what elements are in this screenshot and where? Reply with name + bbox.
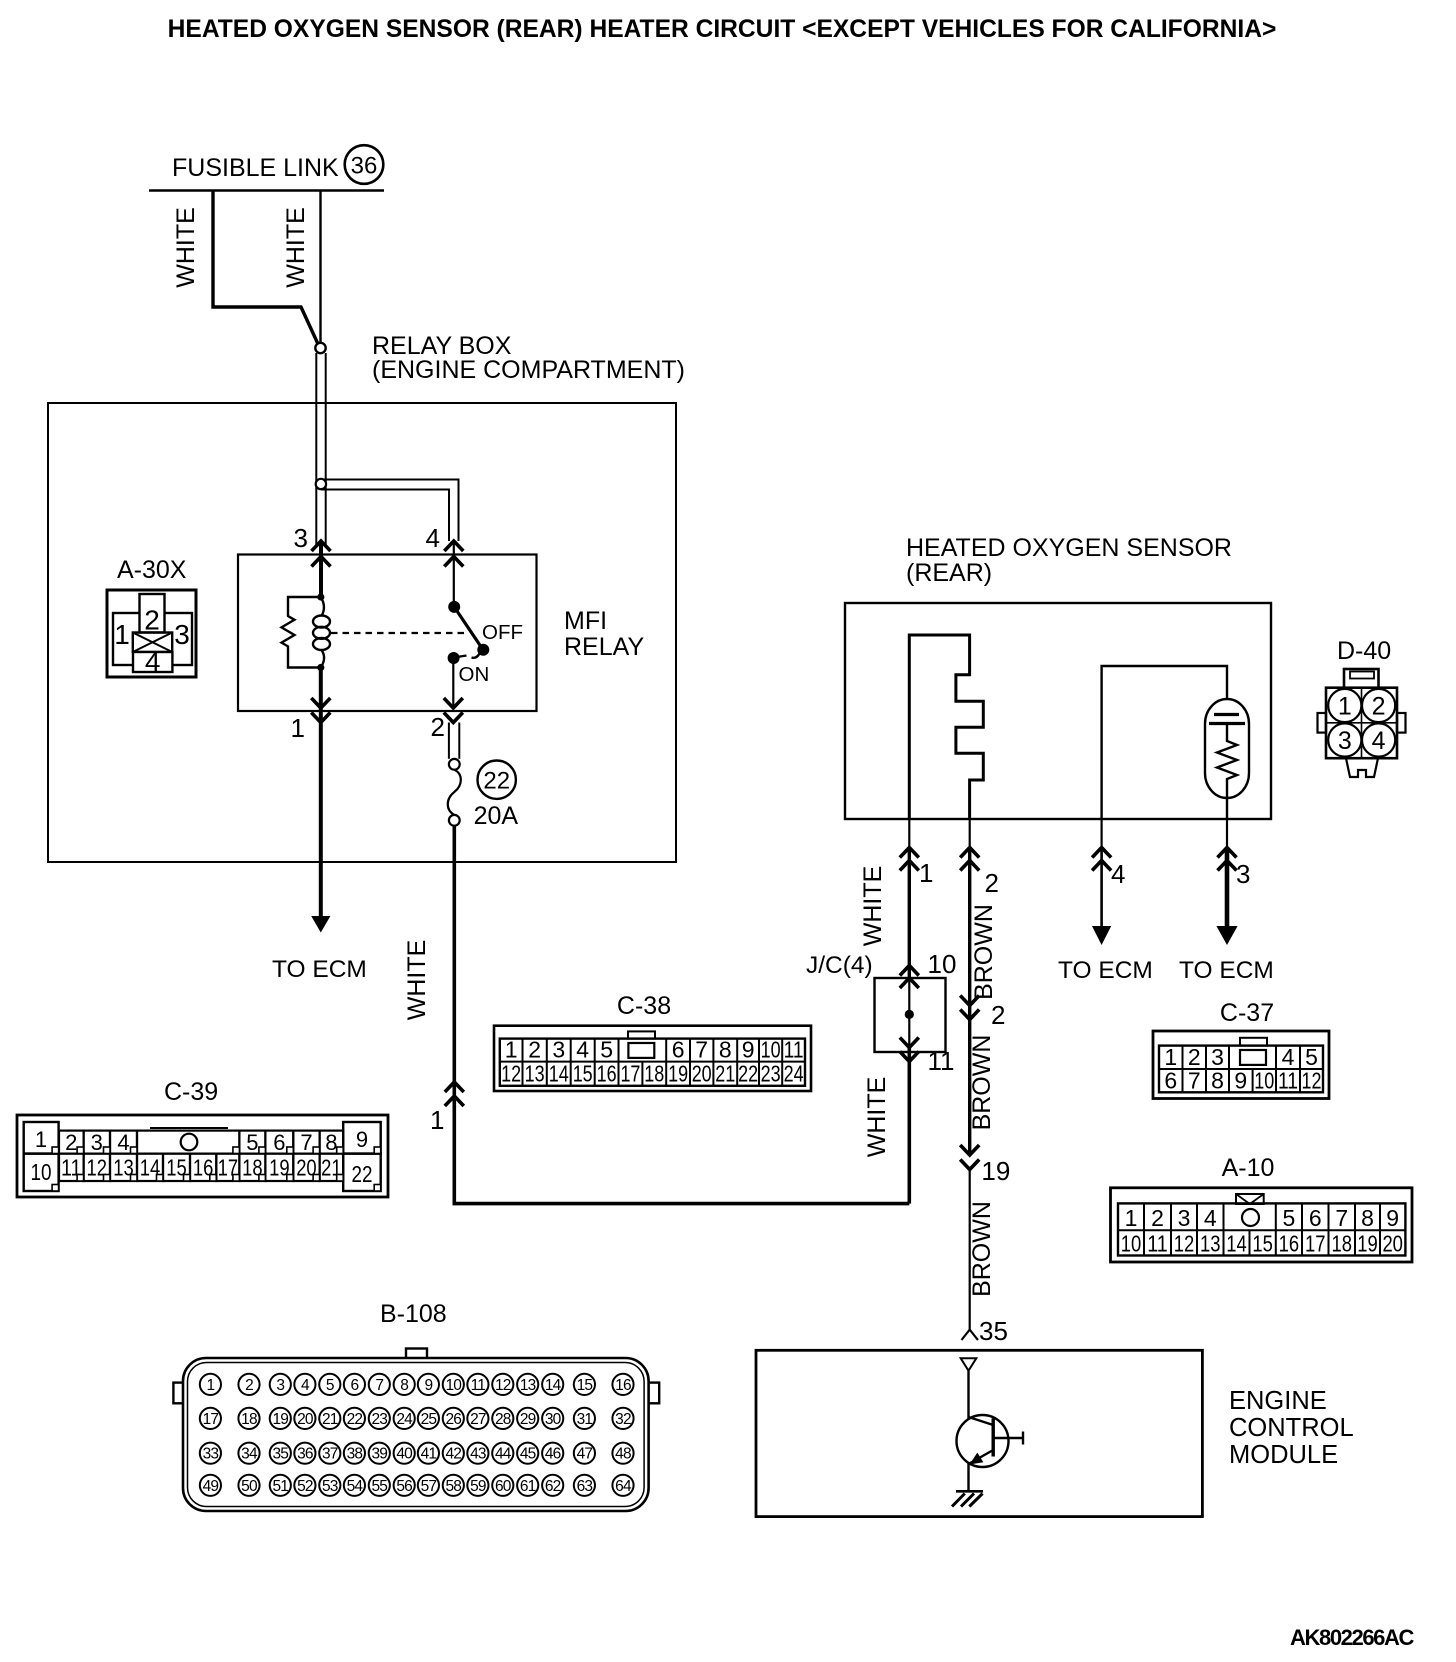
svg-text:10: 10: [928, 949, 957, 979]
svg-text:1: 1: [291, 713, 305, 743]
svg-text:TO ECM: TO ECM: [1179, 957, 1274, 984]
heated oxygen sensor box: [845, 603, 1271, 819]
svg-text:10: 10: [1121, 1231, 1142, 1257]
svg-text:10: 10: [31, 1159, 52, 1185]
svg-text:20: 20: [692, 1061, 712, 1087]
svg-text:13: 13: [1200, 1231, 1221, 1257]
svg-text:4: 4: [1282, 1044, 1295, 1070]
svg-text:58: 58: [445, 1478, 461, 1495]
svg-text:9: 9: [424, 1377, 432, 1394]
svg-text:2: 2: [1188, 1044, 1201, 1070]
svg-text:17: 17: [620, 1061, 640, 1087]
connector C-38: [494, 992, 811, 1091]
svg-text:45: 45: [520, 1446, 536, 1463]
svg-text:7: 7: [695, 1037, 708, 1063]
switch wire to pin 2: [452, 659, 454, 708]
svg-text:60: 60: [495, 1478, 512, 1495]
svg-text:22: 22: [483, 768, 510, 795]
svg-text:32: 32: [615, 1411, 631, 1428]
svg-text:22: 22: [352, 1161, 373, 1187]
arrowhead to ECM: [311, 916, 330, 933]
svg-text:12: 12: [495, 1377, 511, 1394]
svg-text:17: 17: [1305, 1231, 1326, 1257]
svg-text:31: 31: [577, 1411, 593, 1428]
svg-text:46: 46: [545, 1446, 561, 1463]
svg-text:13: 13: [520, 1377, 536, 1394]
wire pin19 to ECM pin35 (BROWN): [969, 1170, 971, 1330]
svg-text:36: 36: [297, 1446, 313, 1463]
connector B-108: [173, 1300, 659, 1511]
svg-text:1: 1: [114, 619, 130, 650]
svg-text:8: 8: [400, 1377, 408, 1394]
svg-text:B-108: B-108: [380, 1300, 447, 1328]
svg-text:23: 23: [761, 1061, 781, 1087]
svg-text:11: 11: [1278, 1067, 1298, 1093]
svg-text:A-10: A-10: [1222, 1154, 1275, 1182]
svg-text:22: 22: [738, 1061, 758, 1087]
svg-text:42: 42: [445, 1446, 461, 1463]
svg-text:MFI: MFI: [564, 607, 607, 635]
svg-text:6: 6: [672, 1037, 685, 1063]
svg-text:C-39: C-39: [164, 1078, 218, 1106]
svg-text:16: 16: [615, 1377, 631, 1394]
ground: [952, 1491, 983, 1506]
svg-text:3: 3: [1338, 727, 1352, 755]
svg-text:4: 4: [1372, 727, 1386, 755]
svg-text:TO ECM: TO ECM: [272, 956, 367, 983]
svg-text:25: 25: [421, 1411, 437, 1428]
svg-text:C-38: C-38: [617, 992, 671, 1020]
svg-text:8: 8: [1211, 1067, 1224, 1093]
svg-text:TO ECM: TO ECM: [1058, 957, 1153, 984]
svg-text:47: 47: [577, 1446, 593, 1463]
transistor Q (heater driver): [957, 1371, 1024, 1492]
fuse element wave: [448, 770, 461, 815]
svg-text:6: 6: [1164, 1067, 1177, 1093]
svg-text:4: 4: [1111, 859, 1125, 889]
wire split at ECM entry: [962, 1330, 978, 1340]
sensor pin 3 wire TO ECM: [1218, 848, 1237, 858]
svg-text:1: 1: [206, 1377, 214, 1394]
svg-text:15: 15: [577, 1377, 593, 1394]
svg-text:1: 1: [35, 1127, 47, 1152]
svg-text:53: 53: [322, 1478, 338, 1495]
svg-text:2: 2: [991, 1000, 1005, 1030]
svg-text:21: 21: [715, 1061, 735, 1087]
svg-text:7: 7: [300, 1130, 312, 1155]
wire white vertical from fuse: [452, 826, 456, 1204]
svg-text:12: 12: [1174, 1231, 1195, 1257]
svg-text:2: 2: [245, 1377, 253, 1394]
svg-text:9: 9: [742, 1037, 755, 1063]
svg-text:16: 16: [597, 1061, 617, 1087]
MFI relay box: [238, 555, 537, 712]
svg-text:29: 29: [520, 1411, 536, 1428]
svg-text:55: 55: [371, 1478, 387, 1495]
sensor pin 2 wire (BROWN): [960, 848, 979, 858]
svg-text:1: 1: [505, 1037, 518, 1063]
engine control module box: [756, 1350, 1202, 1516]
pin 4 chevrons: [444, 541, 463, 551]
svg-text:WHITE: WHITE: [172, 207, 200, 288]
svg-text:5: 5: [600, 1037, 613, 1063]
sensor pin 1 wire (WHITE): [900, 848, 919, 858]
svg-text:1: 1: [1164, 1044, 1177, 1070]
svg-text:4: 4: [426, 523, 440, 553]
sensor plates: [1214, 713, 1239, 716]
svg-text:4: 4: [576, 1037, 589, 1063]
svg-text:9: 9: [356, 1127, 368, 1152]
svg-text:4: 4: [145, 647, 161, 678]
sensor wire stubs below box: [908, 819, 910, 848]
svg-text:8: 8: [1361, 1205, 1374, 1231]
svg-text:27: 27: [470, 1411, 486, 1428]
svg-text:C-37: C-37: [1220, 999, 1274, 1027]
svg-text:3: 3: [174, 619, 190, 650]
wire WHITE right from fusible link: [319, 191, 321, 343]
svg-text:20: 20: [1382, 1231, 1403, 1257]
svg-text:3: 3: [1211, 1044, 1224, 1070]
connector D-40: [1318, 637, 1406, 777]
svg-text:WHITE: WHITE: [859, 866, 887, 947]
svg-text:52: 52: [297, 1478, 313, 1495]
svg-text:28: 28: [495, 1411, 511, 1428]
svg-text:10: 10: [1254, 1067, 1274, 1093]
svg-text:A-30X: A-30X: [117, 556, 187, 584]
svg-text:19: 19: [668, 1061, 688, 1087]
svg-text:FUSIBLE LINK: FUSIBLE LINK: [172, 154, 339, 182]
svg-text:BROWN: BROWN: [968, 1201, 996, 1297]
svg-text:35: 35: [979, 1316, 1008, 1346]
heater element: [909, 635, 983, 819]
svg-text:11: 11: [784, 1037, 804, 1063]
svg-text:(REAR): (REAR): [906, 559, 992, 587]
svg-text:18: 18: [241, 1411, 257, 1428]
svg-text:13: 13: [525, 1061, 545, 1087]
svg-text:63: 63: [577, 1478, 593, 1495]
svg-text:15: 15: [1252, 1231, 1273, 1257]
svg-text:20: 20: [297, 1411, 314, 1428]
svg-text:3: 3: [1236, 859, 1250, 889]
svg-text:44: 44: [495, 1446, 512, 1463]
svg-text:41: 41: [421, 1446, 437, 1463]
svg-text:2: 2: [1372, 693, 1386, 721]
svg-text:BROWN: BROWN: [970, 904, 998, 1000]
svg-text:J/C(4): J/C(4): [806, 952, 873, 979]
svg-text:21: 21: [322, 1411, 338, 1428]
sensor element wire loop: [1102, 666, 1227, 819]
connector A-30X: [107, 556, 196, 678]
sensor internal resistor: [1217, 724, 1237, 820]
svg-text:64: 64: [615, 1478, 632, 1495]
connector C-39: [17, 1078, 388, 1197]
svg-text:18: 18: [1332, 1231, 1353, 1257]
svg-text:48: 48: [615, 1446, 631, 1463]
pin 3 chevrons: [312, 541, 331, 551]
svg-text:3: 3: [91, 1130, 103, 1155]
svg-text:35: 35: [272, 1446, 288, 1463]
chevrons on white wire: [445, 1082, 464, 1092]
svg-text:39: 39: [371, 1446, 387, 1463]
svg-text:54: 54: [347, 1478, 364, 1495]
svg-text:61: 61: [520, 1478, 536, 1495]
svg-text:HEATED OXYGEN SENSOR (REAR) HE: HEATED OXYGEN SENSOR (REAR) HEATER CIRCU…: [168, 16, 1277, 43]
svg-text:30: 30: [545, 1411, 562, 1428]
relay resistor (parallel): [282, 597, 321, 668]
svg-text:BROWN: BROWN: [968, 1035, 996, 1131]
svg-text:2: 2: [1151, 1205, 1164, 1231]
svg-text:36: 36: [351, 153, 378, 180]
svg-text:5: 5: [326, 1377, 334, 1394]
fuse top circle: [449, 759, 460, 770]
svg-text:2: 2: [65, 1130, 77, 1155]
svg-text:34: 34: [241, 1446, 258, 1463]
svg-text:3: 3: [294, 523, 308, 553]
svg-text:2: 2: [528, 1037, 541, 1063]
wire horizontal bottom: [453, 1202, 910, 1206]
svg-text:11: 11: [471, 1377, 486, 1394]
connector A-10: [1111, 1154, 1413, 1262]
svg-text:1: 1: [430, 1105, 444, 1135]
svg-text:56: 56: [396, 1478, 412, 1495]
svg-text:1: 1: [1338, 693, 1352, 721]
svg-text:8: 8: [719, 1037, 732, 1063]
svg-text:WHITE: WHITE: [403, 940, 431, 1021]
svg-text:AK802266AC: AK802266AC: [1290, 1625, 1414, 1650]
svg-text:8: 8: [325, 1130, 337, 1155]
wire double-line into relay box (pin 3 feed): [315, 353, 317, 545]
svg-text:38: 38: [347, 1446, 363, 1463]
svg-text:WHITE: WHITE: [863, 1077, 891, 1158]
svg-text:50: 50: [241, 1478, 258, 1495]
fusible link bus wire: [149, 189, 384, 192]
svg-text:62: 62: [545, 1478, 561, 1495]
svg-text:19: 19: [1357, 1231, 1378, 1257]
svg-text:D-40: D-40: [1337, 637, 1391, 665]
svg-text:OFF: OFF: [482, 621, 523, 644]
svg-text:MODULE: MODULE: [1229, 1441, 1338, 1469]
svg-text:11: 11: [928, 1046, 955, 1076]
svg-text:CONTROL: CONTROL: [1229, 1414, 1354, 1442]
svg-text:6: 6: [273, 1130, 285, 1155]
pin 1 wire: [319, 668, 323, 723]
svg-text:14: 14: [1226, 1231, 1247, 1257]
svg-text:RELAY: RELAY: [564, 633, 644, 661]
svg-text:33: 33: [203, 1446, 219, 1463]
svg-text:4: 4: [1204, 1205, 1217, 1231]
svg-text:12: 12: [501, 1061, 521, 1087]
node circle on branch: [316, 479, 326, 489]
svg-text:10: 10: [445, 1377, 462, 1394]
svg-text:15: 15: [573, 1061, 593, 1087]
fuse bottom circle: [449, 815, 460, 826]
svg-text:3: 3: [276, 1377, 284, 1394]
pin 1 chevrons: [311, 698, 330, 708]
svg-text:9: 9: [1386, 1205, 1399, 1231]
svg-text:(ENGINE COMPARTMENT): (ENGINE COMPARTMENT): [372, 356, 685, 384]
svg-text:26: 26: [445, 1411, 461, 1428]
svg-text:49: 49: [203, 1478, 219, 1495]
svg-text:19: 19: [981, 1156, 1010, 1186]
svg-text:9: 9: [1234, 1067, 1247, 1093]
svg-text:16: 16: [1279, 1231, 1300, 1257]
svg-text:6: 6: [1309, 1205, 1322, 1231]
svg-text:24: 24: [396, 1411, 413, 1428]
dashed actuation line: [331, 632, 466, 634]
svg-text:57: 57: [421, 1478, 437, 1495]
svg-text:1: 1: [919, 858, 933, 888]
svg-text:22: 22: [347, 1411, 363, 1428]
svg-text:17: 17: [203, 1411, 219, 1428]
svg-text:ON: ON: [459, 663, 490, 686]
connector C-37: [1153, 999, 1329, 1099]
svg-text:24: 24: [784, 1061, 804, 1087]
svg-text:11: 11: [1147, 1231, 1168, 1257]
svg-text:2: 2: [985, 868, 999, 898]
fuse number 22 circled: [478, 761, 516, 799]
relay coil: [313, 593, 330, 671]
svg-text:5: 5: [1305, 1044, 1318, 1070]
svg-text:6: 6: [350, 1377, 358, 1394]
svg-text:12: 12: [1302, 1067, 1322, 1093]
svg-text:19: 19: [272, 1411, 288, 1428]
svg-text:3: 3: [1178, 1205, 1191, 1231]
fuse holder double line: [448, 723, 450, 759]
svg-text:5: 5: [1283, 1205, 1296, 1231]
svg-text:4: 4: [117, 1130, 129, 1155]
ECM input triangle: [961, 1358, 977, 1370]
svg-text:5: 5: [246, 1130, 258, 1155]
relay switch: [448, 601, 490, 664]
wire pin1 to ECM: [319, 723, 323, 919]
svg-text:HEATED OXYGEN SENSOR: HEATED OXYGEN SENSOR: [906, 534, 1232, 562]
svg-text:2: 2: [431, 712, 445, 742]
svg-text:37: 37: [322, 1446, 338, 1463]
svg-text:43: 43: [470, 1446, 486, 1463]
svg-text:20A: 20A: [474, 802, 519, 830]
svg-text:4: 4: [301, 1377, 310, 1394]
svg-text:40: 40: [396, 1446, 413, 1463]
svg-text:2: 2: [144, 605, 160, 636]
pin 2 chevrons: [444, 698, 463, 708]
svg-text:18: 18: [644, 1061, 664, 1087]
svg-text:7: 7: [1188, 1067, 1201, 1093]
wire double-line branch to pin 4: [321, 480, 459, 542]
svg-text:WHITE: WHITE: [282, 207, 310, 288]
svg-text:23: 23: [371, 1411, 387, 1428]
relay box (engine compartment): [48, 403, 676, 862]
sensor pin 4 wire TO ECM: [1092, 848, 1111, 858]
svg-text:7: 7: [375, 1377, 383, 1394]
wire J/C to bottom corner (WHITE): [907, 1048, 911, 1204]
svg-text:1: 1: [1125, 1205, 1138, 1231]
svg-text:14: 14: [549, 1061, 569, 1087]
fusible link 36 circle: [345, 145, 384, 184]
svg-text:7: 7: [1335, 1205, 1348, 1231]
svg-text:51: 51: [272, 1478, 288, 1495]
svg-text:10: 10: [761, 1037, 781, 1063]
svg-text:3: 3: [552, 1037, 565, 1063]
wire WHITE left from fusible link: [213, 191, 318, 345]
svg-text:ENGINE: ENGINE: [1229, 1387, 1327, 1415]
sensor element capsule: [1205, 699, 1249, 798]
node circle at relay box feed: [315, 343, 325, 353]
svg-text:14: 14: [545, 1377, 562, 1394]
svg-text:59: 59: [470, 1478, 486, 1495]
